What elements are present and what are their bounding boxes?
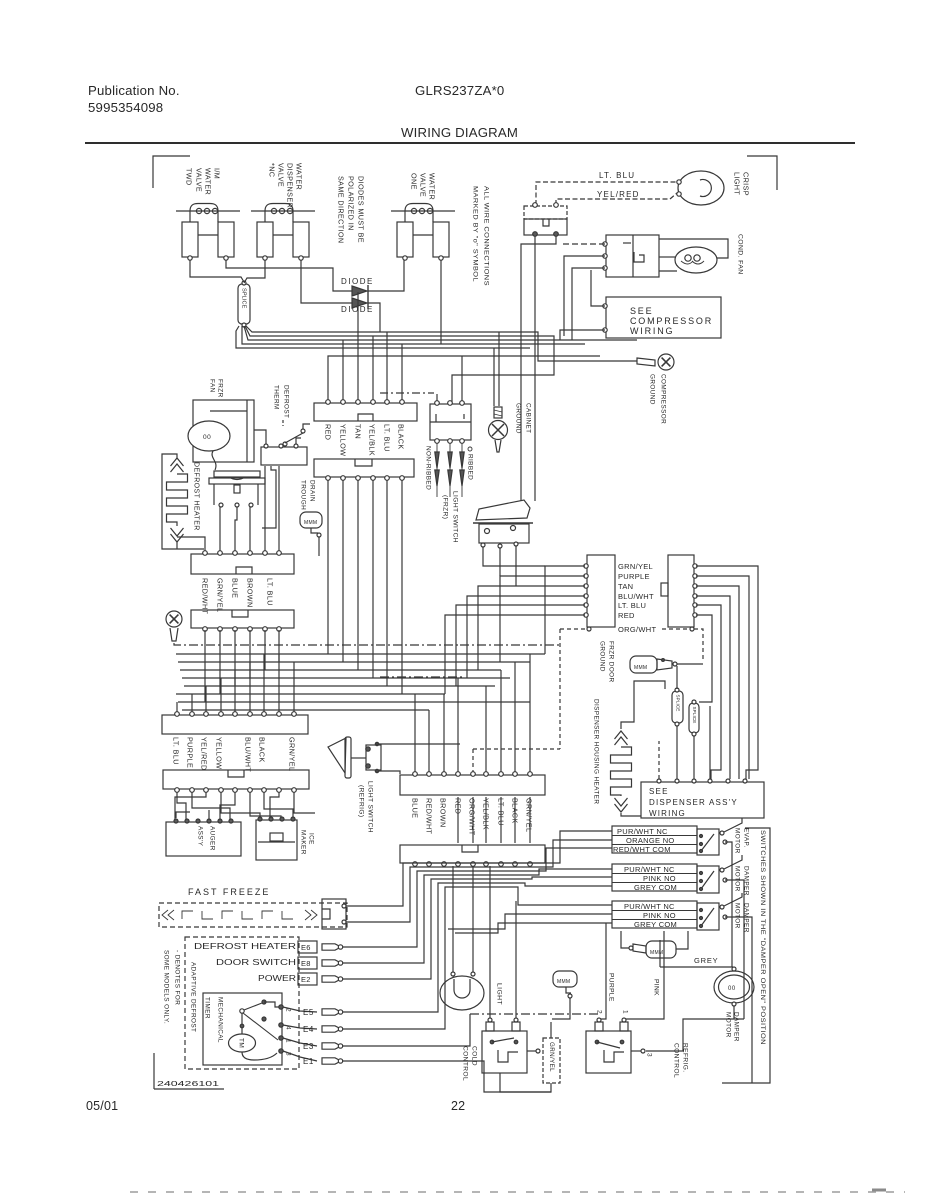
wires cold control feeds bbox=[489, 866, 491, 1018]
connector CN-G bbox=[400, 775, 545, 795]
svg-text:TM: TM bbox=[238, 1038, 245, 1048]
wires CN-B pins down to bus bbox=[327, 480, 329, 654]
wire valve3 right pin down to bundle bbox=[440, 260, 442, 344]
wire ORG/WHT dashed route bbox=[559, 629, 561, 749]
svg-text:AUGER: AUGER bbox=[209, 826, 216, 851]
motor damper motor bbox=[714, 971, 754, 1003]
svg-text:YELLOW: YELLOW bbox=[214, 737, 223, 769]
svg-text:3: 3 bbox=[646, 1053, 653, 1057]
svg-text:00: 00 bbox=[728, 986, 736, 992]
splice SP2 bbox=[672, 691, 683, 723]
svg-text:COLD: COLD bbox=[471, 1046, 478, 1066]
wire CN-T left pin down to freezer light switch bbox=[534, 236, 536, 501]
wire splice SP2 up bbox=[676, 666, 678, 689]
svg-text:MARKED BY "o" SYMBOL: MARKED BY "o" SYMBOL bbox=[472, 186, 479, 282]
svg-text:MMM: MMM bbox=[304, 520, 317, 526]
connector CN-T top bbox=[524, 206, 567, 219]
switch evap fan switch bbox=[697, 829, 719, 855]
relay block compressor relay bbox=[606, 235, 659, 277]
svg-text:TWD: TWD bbox=[184, 168, 193, 186]
svg-text:DISPENSER HOUSING HEATER: DISPENSER HOUSING HEATER bbox=[593, 699, 600, 804]
svg-text:CRISP: CRISP bbox=[741, 172, 750, 196]
svg-text:LIGHT SWITCH: LIGHT SWITCH bbox=[367, 781, 374, 833]
svg-text:SPLICE: SPLICE bbox=[675, 695, 680, 712]
title rule bbox=[85, 142, 855, 144]
svg-text:ALL WIRE CONNECTIONS: ALL WIRE CONNECTIONS bbox=[483, 186, 490, 286]
svg-text:- DENOTES FOR: - DENOTES FOR bbox=[174, 950, 181, 1005]
solenoid valve V2 WATER DISPENSER VALVE *NC bbox=[251, 210, 315, 212]
svg-text:GLRS237ZA*0: GLRS237ZA*0 bbox=[415, 83, 504, 98]
svg-text:RED: RED bbox=[323, 424, 332, 440]
switch refrigerator light switch bbox=[328, 738, 346, 773]
svg-text:ORANGE NO: ORANGE NO bbox=[626, 836, 675, 845]
svg-text:GROUND: GROUND bbox=[649, 374, 656, 405]
svg-text:05/01: 05/01 bbox=[86, 1099, 118, 1113]
wires evap switch rows left staircase bbox=[346, 831, 612, 906]
svg-text:TAN: TAN bbox=[618, 582, 633, 591]
svg-text:FAST FREEZE: FAST FREEZE bbox=[188, 887, 270, 897]
wires CN-D2 pins down to bus bbox=[204, 630, 206, 702]
wires CN-I up bbox=[436, 394, 438, 401]
svg-text:VALVE: VALVE bbox=[418, 173, 427, 197]
wire relay pin1 left dashed bbox=[560, 243, 605, 245]
svg-text:(FRZR): (FRZR) bbox=[442, 495, 449, 519]
wires bus down to CN-G bbox=[414, 694, 416, 775]
wire purple bbox=[599, 923, 606, 1022]
svg-text:5995354098: 5995354098 bbox=[88, 100, 163, 115]
svg-text:TAN: TAN bbox=[353, 424, 362, 439]
fast freeze dashed harness bbox=[159, 903, 347, 927]
svg-text:LT. BLU: LT. BLU bbox=[382, 424, 391, 452]
connector fast freeze plug bbox=[322, 899, 346, 929]
wire grn/yel vertical bbox=[550, 1022, 552, 1038]
wires CN-C pins up bbox=[177, 537, 205, 551]
timer mechanical timer bbox=[203, 993, 282, 1065]
wire diode D2 output bbox=[368, 303, 380, 332]
svg-text:YELLOW: YELLOW bbox=[338, 424, 347, 456]
label RIBBED bbox=[468, 447, 472, 451]
svg-text:WATER: WATER bbox=[294, 163, 303, 190]
svg-text:BLUE: BLUE bbox=[230, 578, 239, 598]
svg-text:PURPLE: PURPLE bbox=[185, 737, 194, 768]
svg-text:DISPENSER ASS'Y: DISPENSER ASS'Y bbox=[649, 798, 738, 807]
wire dispenser heater top bbox=[621, 681, 665, 729]
wires block R pins right and down bbox=[696, 566, 758, 779]
wire damper motor bottom loop bbox=[733, 1006, 735, 1019]
box SEE COMPRESSOR WIRING bbox=[606, 297, 721, 338]
svg-text:SEE: SEE bbox=[649, 787, 669, 796]
svg-text:REFRIG.: REFRIG. bbox=[682, 1043, 689, 1073]
svg-text:MMM: MMM bbox=[634, 665, 647, 671]
svg-text:PURPLE: PURPLE bbox=[618, 572, 650, 581]
wires freezer light switch down bbox=[483, 547, 545, 566]
svg-text:240426101: 240426101 bbox=[157, 1079, 219, 1088]
timer motor TM bbox=[229, 1034, 256, 1052]
svg-text:BROWN: BROWN bbox=[245, 578, 254, 608]
corner bracket top-left bbox=[153, 156, 190, 188]
wire dash-dot bottom run bbox=[470, 1013, 600, 1015]
svg-text:WATER: WATER bbox=[203, 168, 212, 195]
ground cabinet ground bbox=[494, 407, 502, 418]
connector block L bbox=[587, 555, 615, 627]
svg-text:(REFRIG): (REFRIG) bbox=[358, 785, 365, 818]
svg-text:YEL/RED: YEL/RED bbox=[597, 190, 640, 199]
wires damper1 switch rows left staircase bbox=[342, 869, 612, 963]
connector block R bbox=[668, 555, 694, 627]
svg-text:COND. FAN: COND. FAN bbox=[737, 234, 744, 275]
wires CN-G to CN-H straight-through bbox=[457, 797, 459, 843]
svg-text:SPLICE: SPLICE bbox=[241, 288, 247, 309]
svg-text:SEE: SEE bbox=[630, 306, 653, 316]
svg-text:WATER: WATER bbox=[427, 173, 436, 200]
connector CN-I bbox=[430, 404, 471, 440]
svg-text:DIODES MUST BE: DIODES MUST BE bbox=[356, 176, 365, 243]
wire damper heater left bbox=[621, 931, 629, 948]
svg-text:LT. BLU: LT. BLU bbox=[618, 601, 646, 610]
svg-text:MOTOR: MOTOR bbox=[734, 866, 741, 892]
terminal E1 bbox=[283, 1051, 317, 1061]
wire damper switch1 pin down bbox=[725, 880, 744, 1019]
wire dash-dot run 2 bbox=[380, 676, 465, 678]
solenoid valve V3 WATER VALVE ONE bbox=[391, 210, 455, 212]
heater freezer door MMM bbox=[630, 656, 657, 673]
svg-text:PURPLE: PURPLE bbox=[608, 973, 615, 1002]
wire relay to fan loop bbox=[659, 239, 728, 258]
svg-text:MOTOR: MOTOR bbox=[734, 903, 741, 929]
heater damper MMM bbox=[646, 941, 676, 958]
wire dispenser heater bottom bbox=[621, 813, 641, 816]
svg-text:BLU/WHT: BLU/WHT bbox=[618, 592, 654, 601]
wire bundle Lb3 bbox=[244, 326, 637, 340]
wire bus mid horizontal runs bbox=[176, 653, 545, 655]
wires CN-E pins up to bus bbox=[176, 702, 178, 714]
svg-text:*NC: *NC bbox=[267, 163, 276, 177]
svg-text:BLACK: BLACK bbox=[396, 424, 405, 450]
svg-text:SWITCHES SHOWN IN THE "DAMPER: SWITCHES SHOWN IN THE "DAMPER OPEN" POSI… bbox=[759, 830, 766, 1045]
svg-text:LIGHT SWITCH: LIGHT SWITCH bbox=[452, 491, 459, 543]
wires timer terminals right bbox=[342, 1014, 470, 1046]
switch group damper1 rows bbox=[612, 864, 697, 891]
svg-text:DEFROST: DEFROST bbox=[283, 385, 290, 418]
wire grey to damper motor bbox=[660, 966, 733, 968]
svg-text:ORG/WHT: ORG/WHT bbox=[618, 625, 656, 634]
svg-text:DISPENSER: DISPENSER bbox=[285, 163, 294, 208]
svg-text:LT. BLU: LT. BLU bbox=[599, 171, 635, 180]
svg-text:MOTOR: MOTOR bbox=[725, 1012, 732, 1038]
svg-text:GREY: GREY bbox=[694, 956, 718, 965]
svg-text:COMPRESSOR: COMPRESSOR bbox=[630, 316, 713, 326]
svg-text:DIODE: DIODE bbox=[341, 277, 374, 286]
splice SP3 bbox=[689, 703, 699, 733]
svg-text:BLUE: BLUE bbox=[410, 798, 419, 818]
wire refrig light switch out lower bbox=[377, 770, 400, 774]
switch damper switch 2 bbox=[697, 903, 719, 930]
wires dispenser box pins up bbox=[676, 726, 678, 779]
svg-text:WIRING DIAGRAM: WIRING DIAGRAM bbox=[401, 125, 518, 140]
svg-text:POWER: POWER bbox=[258, 973, 296, 983]
wire CN-T right pin down bbox=[521, 236, 556, 501]
svg-text:MMM: MMM bbox=[557, 979, 570, 985]
svg-text:SPLICE: SPLICE bbox=[692, 707, 697, 724]
connector CN-E bbox=[162, 715, 308, 734]
svg-text:MAKER: MAKER bbox=[300, 830, 307, 855]
scan artifact bottom edge bbox=[130, 1191, 905, 1193]
part number 240426101 bbox=[153, 1053, 155, 1089]
terminal E3 bbox=[283, 1038, 317, 1046]
connector CN-D 3pin bbox=[261, 447, 307, 465]
wire door heater to junction bbox=[677, 663, 703, 665]
connector CN-C bbox=[191, 554, 294, 574]
svg-text:GREY COM: GREY COM bbox=[634, 883, 677, 892]
svg-text:TROUGH: TROUGH bbox=[300, 480, 307, 510]
wire pink bbox=[625, 931, 664, 1022]
switch damper switch 1 bbox=[697, 866, 719, 893]
wire fan to CN-D bbox=[254, 430, 266, 444]
wires CN-F to auger and ice maker bbox=[177, 792, 186, 820]
wire therm to CN-D bbox=[296, 438, 301, 444]
svg-text:RED/WHT: RED/WHT bbox=[200, 578, 209, 615]
wire run y356 bbox=[328, 356, 600, 402]
wire relay pin2 to bundle bbox=[564, 256, 605, 336]
wire dash-dot run bbox=[174, 643, 460, 645]
svg-text:GROUND: GROUND bbox=[599, 641, 606, 672]
svg-text:YEL/BLK: YEL/BLK bbox=[367, 424, 376, 456]
svg-text:E3: E3 bbox=[303, 1042, 314, 1051]
wire compressor box pin to bundle bbox=[560, 330, 605, 340]
svg-text:E4: E4 bbox=[303, 1025, 314, 1034]
wire valve2 right pin to diode D2 bbox=[301, 260, 352, 303]
svg-text:SAME DIRECTION: SAME DIRECTION bbox=[336, 176, 345, 244]
svg-text:LIGHT: LIGHT bbox=[496, 983, 503, 1005]
svg-text:EVAP.: EVAP. bbox=[743, 828, 750, 848]
connector CN-A bbox=[314, 403, 417, 421]
wire evap switch pin to damper motor bbox=[725, 842, 732, 967]
svg-text:GRN/YEL: GRN/YEL bbox=[215, 578, 224, 612]
terminal E4 bbox=[283, 1025, 317, 1029]
svg-text:FAN: FAN bbox=[209, 379, 216, 393]
svg-text:ICE: ICE bbox=[308, 833, 315, 845]
svg-text:WIRING: WIRING bbox=[630, 326, 674, 336]
svg-text:1: 1 bbox=[622, 1010, 629, 1014]
svg-text:ONE: ONE bbox=[409, 173, 418, 190]
wire markers ribbed arrows bbox=[436, 443, 438, 497]
svg-text:NON-RIBBED: NON-RIBBED bbox=[425, 446, 432, 490]
svg-text:E6: E6 bbox=[301, 943, 311, 952]
wire YEL/RED dashed bbox=[556, 193, 677, 205]
svg-text:CONTROL: CONTROL bbox=[462, 1046, 469, 1081]
svg-text:RED/WHT COM: RED/WHT COM bbox=[613, 845, 671, 854]
svg-text:BLU/WHT: BLU/WHT bbox=[243, 737, 252, 772]
svg-text:BROWN: BROWN bbox=[438, 798, 447, 828]
wire drip heater down bbox=[552, 998, 570, 1019]
svg-text:E5: E5 bbox=[303, 1008, 314, 1017]
wires damper2 switch rows left staircase bbox=[342, 887, 612, 1029]
terminal E5 bbox=[283, 1007, 317, 1012]
wire compressor box pin2 bbox=[591, 270, 605, 306]
diode D2 bbox=[352, 298, 367, 308]
svg-text:WIRING: WIRING bbox=[649, 809, 686, 818]
timer contacts bbox=[262, 1000, 266, 1004]
svg-text:BLACK: BLACK bbox=[257, 737, 266, 763]
thermostat cold control bbox=[482, 1031, 527, 1073]
defrost heater assembly plate bbox=[214, 471, 260, 477]
svg-text:DEFROST HEATER: DEFROST HEATER bbox=[194, 941, 296, 951]
svg-text:LT. BLU: LT. BLU bbox=[171, 737, 180, 765]
box ice maker bbox=[256, 820, 297, 860]
wire bundle Lb5 bbox=[236, 326, 530, 348]
svg-text:FRZR DOOR: FRZR DOOR bbox=[608, 641, 615, 683]
wires block L feeds bbox=[545, 566, 585, 654]
svg-text:DEFROST HEATER: DEFROST HEATER bbox=[193, 462, 200, 531]
switch group evap rows bbox=[612, 826, 697, 853]
wires light feeds bbox=[452, 866, 454, 972]
svg-text:GRN/YEL: GRN/YEL bbox=[618, 562, 653, 571]
svg-text:RED/WHT: RED/WHT bbox=[424, 798, 433, 835]
svg-text:RED: RED bbox=[618, 611, 635, 620]
thermostat refrig control bbox=[586, 1031, 631, 1073]
splice SP1 bbox=[238, 284, 250, 324]
wire ORG/WHT dashed bbox=[560, 628, 586, 630]
wire bundle Lb4 bbox=[242, 326, 585, 344]
svg-text:PINK NO: PINK NO bbox=[643, 874, 676, 883]
svg-text:LIGHT: LIGHT bbox=[732, 172, 741, 195]
svg-text:CONTROL: CONTROL bbox=[673, 1043, 680, 1078]
svg-text:ADAPTIVE DEFROST: ADAPTIVE DEFROST bbox=[190, 962, 197, 1032]
svg-text:DRAIN: DRAIN bbox=[309, 480, 316, 502]
ground compressor ground bbox=[658, 354, 674, 370]
wire therm connector to plate bbox=[262, 466, 276, 528]
connector CN-D2 bbox=[191, 610, 294, 628]
connector CN-H bbox=[400, 845, 545, 863]
svg-text:PINK: PINK bbox=[653, 979, 660, 996]
wire cabinet ground up bbox=[493, 348, 495, 406]
svg-text:LT. BLU: LT. BLU bbox=[265, 578, 274, 606]
wire valve1 right pin to diode D1 bbox=[226, 260, 352, 291]
lamp crisper light bbox=[678, 171, 724, 205]
svg-text:00: 00 bbox=[203, 434, 211, 441]
svg-text:COMPRESSOR: COMPRESSOR bbox=[660, 374, 667, 424]
switch group damper2 rows bbox=[612, 901, 697, 928]
dashed box adaptive defrost bbox=[185, 937, 299, 1069]
heater drip MMM small bbox=[553, 971, 577, 987]
diode D1 bbox=[352, 286, 367, 296]
svg-text:Publication No.: Publication No. bbox=[88, 83, 180, 98]
svg-text:POLARIZED IN: POLARIZED IN bbox=[346, 176, 355, 231]
svg-text:CABINET: CABINET bbox=[525, 403, 532, 434]
lamp refrigerator light bbox=[440, 976, 484, 1010]
svg-text:ORG/WHT: ORG/WHT bbox=[467, 798, 476, 836]
svg-text:E1: E1 bbox=[303, 1057, 314, 1066]
svg-text:RIBBED: RIBBED bbox=[467, 454, 474, 480]
svg-text:PINK NO: PINK NO bbox=[643, 911, 676, 920]
svg-text:SOME MODELS ONLY.: SOME MODELS ONLY. bbox=[163, 950, 170, 1024]
connector CN-B bbox=[314, 459, 414, 477]
motor freezer fan FRZR FAN bbox=[193, 400, 254, 462]
wire relay pin3 to bundle bbox=[572, 268, 605, 340]
svg-text:PUR/WHT NC: PUR/WHT NC bbox=[617, 827, 668, 836]
heater defrost heater element bbox=[171, 458, 184, 466]
svg-text:2: 2 bbox=[596, 1010, 603, 1014]
wire dispenser box pin1 dashed bbox=[658, 741, 660, 779]
wire LT. BLU dashed bbox=[536, 182, 677, 205]
solenoid valve V1 I/M WATER VALVE TWD bbox=[176, 210, 240, 212]
wire dash-dot stub near CN-A bbox=[380, 392, 434, 394]
wire valve1 left pin to splice bbox=[190, 260, 244, 282]
svg-text:PUR/WHT NC: PUR/WHT NC bbox=[624, 902, 675, 911]
svg-text:YEL/RED: YEL/RED bbox=[199, 737, 208, 771]
wire damper heater up bbox=[676, 931, 688, 949]
svg-text:ASS'Y: ASS'Y bbox=[197, 826, 204, 847]
box SEE DISPENSER ASSY WIRING bbox=[641, 782, 764, 818]
svg-text:GRN/YEL: GRN/YEL bbox=[548, 1042, 555, 1072]
motor condenser fan bbox=[675, 247, 717, 273]
svg-text:VALVE: VALVE bbox=[194, 168, 203, 192]
svg-text:PUR/WHT NC: PUR/WHT NC bbox=[624, 865, 675, 874]
wire diode D1 output to valve3 left pin bbox=[368, 260, 404, 291]
wire valve2 left pin to splice bbox=[244, 260, 265, 283]
label GRN/YEL dashed box bbox=[543, 1038, 560, 1083]
wire refrig light switch out upper bbox=[377, 743, 460, 745]
svg-text:DOOR SWITCH: DOOR SWITCH bbox=[216, 957, 296, 967]
ground left cabinet ground bbox=[166, 611, 182, 627]
svg-text:MOTOR: MOTOR bbox=[734, 828, 741, 854]
corner bracket top-right bbox=[747, 156, 777, 190]
svg-text:E2: E2 bbox=[301, 975, 311, 984]
bracket right annotation bbox=[722, 828, 770, 1083]
svg-text:VALVE: VALVE bbox=[276, 163, 285, 187]
svg-text:TIMER: TIMER bbox=[204, 997, 211, 1019]
wire bundle Lb1 splice to compressor ground bbox=[246, 326, 637, 361]
switch defrost thermostat bbox=[283, 442, 287, 446]
heater dispenser housing heater bbox=[615, 731, 628, 739]
wires CN-A pins up to bundle bbox=[342, 340, 344, 400]
svg-text:THERM: THERM bbox=[273, 385, 280, 410]
wire bundle Lb2 splice to ribbed connector bbox=[245, 326, 554, 402]
connector CN-F bbox=[163, 770, 309, 789]
switch freezer light switch bbox=[476, 500, 530, 520]
svg-text:E8: E8 bbox=[301, 959, 311, 968]
wire damper switch2 pin down bbox=[725, 917, 752, 1083]
svg-text:MMM: MMM bbox=[650, 950, 663, 956]
svg-text:22: 22 bbox=[451, 1099, 465, 1113]
heater drain trough MMM bbox=[300, 512, 322, 528]
svg-text:GRN/YEL: GRN/YEL bbox=[287, 737, 296, 771]
svg-text:I/M: I/M bbox=[212, 168, 221, 179]
svg-text:GREY COM: GREY COM bbox=[634, 920, 677, 929]
svg-text:GRN/YEL: GRN/YEL bbox=[524, 798, 533, 832]
svg-text:FRZR: FRZR bbox=[217, 379, 224, 398]
box auger assembly bbox=[166, 822, 241, 856]
svg-text:MECHANICAL: MECHANICAL bbox=[217, 997, 224, 1043]
